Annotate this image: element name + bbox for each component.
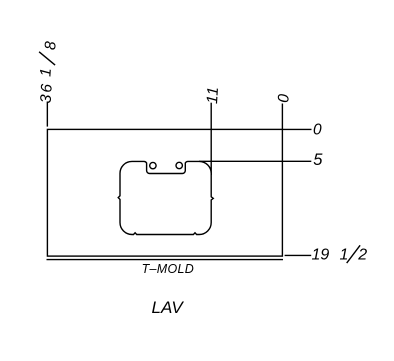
svg-text:2: 2: [357, 246, 367, 263]
fraction slash of 19 1/2: [347, 245, 360, 263]
svg-text:5: 5: [313, 151, 323, 169]
dimension text 0 (rotated): [275, 93, 293, 103]
extension line 36 1/8: [46, 102, 48, 127]
svg-text:LAV: LAV: [152, 298, 185, 317]
leader line 5: [199, 160, 311, 162]
leader line 0: [282, 128, 311, 130]
fraction slash of 36 1/8: [39, 52, 55, 65]
svg-text:T–MOLD: T–MOLD: [142, 262, 195, 276]
svg-text:1: 1: [340, 246, 349, 263]
t-mold front edge line: [47, 259, 284, 261]
svg-text:36: 36: [38, 82, 56, 104]
leader line 19 1/2: [285, 254, 312, 256]
sink cutout: [118, 161, 213, 234]
faucet hole left: [150, 162, 156, 168]
dimension text 36 1/8 (rotated): [36, 40, 60, 104]
extension line 0: [281, 104, 283, 130]
svg-text:11: 11: [204, 86, 222, 105]
svg-text:8: 8: [42, 40, 60, 50]
svg-text:0: 0: [313, 122, 322, 139]
countertop outline: [47, 129, 282, 256]
dimension text 11 (rotated): [204, 86, 222, 105]
svg-text:1: 1: [37, 68, 54, 78]
svg-text:0: 0: [275, 93, 293, 103]
faucet hole right: [176, 162, 182, 168]
svg-text:19: 19: [312, 246, 330, 263]
extension line 11: [210, 103, 212, 175]
